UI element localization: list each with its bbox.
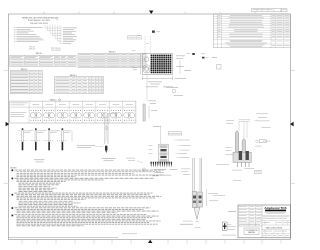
table 4 mounting pad strip <box>10 101 136 123</box>
bottom form text line <box>8 234 137 239</box>
mid callouts <box>166 87 183 96</box>
tall bp pin figure <box>105 113 117 153</box>
mid leader texts left of section <box>126 158 146 171</box>
coordinate callout boxes <box>128 35 142 39</box>
note flag markers <box>12 169 14 216</box>
grid width dimension <box>142 76 172 80</box>
right zone arrow <box>290 122 294 127</box>
left zone arrow <box>6 122 10 127</box>
svg-text:CUSTOMER USE: CUSTOMER USE <box>245 230 257 232</box>
next assy texts <box>222 211 236 235</box>
top zone arrow <box>149 11 154 15</box>
section left dims <box>149 146 153 155</box>
section dim leader top <box>153 126 182 144</box>
right section left dims <box>226 147 234 155</box>
svg-text:TABLE 4: TABLE 4 <box>50 98 57 101</box>
code ident row <box>262 221 291 225</box>
table 3 <box>55 74 104 94</box>
drawing number row <box>262 227 291 233</box>
registration plus box <box>222 222 231 231</box>
pin assembly bodies <box>192 192 202 208</box>
pin comb bottom view <box>150 162 172 168</box>
datum marks <box>132 31 160 52</box>
right cross-section legs <box>238 162 250 167</box>
svg-text:NOTES:: NOTES: <box>11 168 18 170</box>
option list left <box>14 27 43 42</box>
svg-text:GBC-XXX-XXXX: GBC-XXX-XXXX <box>266 227 283 229</box>
four latch pin figures <box>17 128 72 150</box>
table 2 <box>10 68 42 94</box>
bottom zone arrow <box>148 240 152 243</box>
table 1 right <box>78 50 146 67</box>
Amphenol TCS logo <box>264 206 286 213</box>
option list right <box>63 28 77 44</box>
grid dim texts <box>146 82 173 88</box>
symbols below revision table <box>187 53 209 59</box>
detail caption <box>152 169 177 176</box>
part number breakdown leader lines <box>45 25 62 44</box>
rails left dim texts <box>181 169 190 175</box>
drawing title text <box>22 17 58 22</box>
svg-text:4 PLCS: 4 PLCS <box>29 49 36 51</box>
pin side view right of strip <box>143 101 157 122</box>
svg-text:Amphenol TCS: Amphenol TCS <box>264 206 286 210</box>
typ plcs callouts <box>29 47 61 53</box>
title block frame <box>238 205 291 238</box>
right labels col <box>256 114 268 118</box>
connector top view body <box>141 53 173 74</box>
signature grid <box>238 205 262 226</box>
border frame <box>8 14 290 240</box>
projection lines to grid <box>145 36 150 53</box>
svg-text:P/N GBC-XXX-XXXX: P/N GBC-XXX-XXXX <box>30 23 49 25</box>
notes text block <box>15 170 164 226</box>
pin assembly dim bracket <box>207 164 230 206</box>
customer use drawing box <box>244 228 259 235</box>
pin assembly rails <box>193 158 202 192</box>
pin grid array <box>151 55 172 74</box>
section labels right <box>174 140 190 158</box>
pin assembly tip <box>194 208 200 220</box>
right section lower callouts <box>232 168 261 180</box>
pin figure caption <box>34 159 45 162</box>
scale sheet row <box>263 233 290 237</box>
pcb mount cross-section <box>159 144 168 162</box>
svg-text:TABLE 1: TABLE 1 <box>35 52 42 55</box>
side dimension cluster <box>175 56 221 79</box>
svg-text:TABLE 2: TABLE 2 <box>108 50 115 53</box>
right section labels <box>255 127 271 146</box>
pin assembly captions <box>180 221 201 228</box>
revision header boxes above frame <box>252 9 288 12</box>
tall pin caption <box>102 158 116 161</box>
proprietary note rows <box>262 216 291 221</box>
svg-text:RIGHT ANGLE .100 GRID: RIGHT ANGLE .100 GRID <box>28 19 51 22</box>
revision table <box>213 14 290 48</box>
tall pin leader text <box>77 145 103 148</box>
part number template <box>30 23 49 25</box>
right cross-section body <box>233 131 251 163</box>
svg-text:TYP 4 PLCS: TYP 4 PLCS <box>51 50 61 52</box>
table 1 left <box>10 55 76 66</box>
right cross-section dims top <box>226 119 270 138</box>
latch detail figure <box>132 65 150 101</box>
